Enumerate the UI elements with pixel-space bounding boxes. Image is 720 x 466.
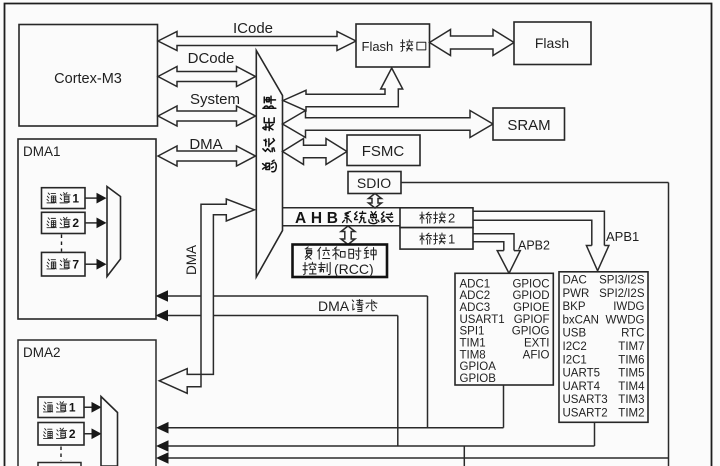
APB1 hollow down arrowhead <box>586 246 609 271</box>
svg-text:USART3: USART3 <box>563 394 608 406</box>
wire <box>427 296 429 428</box>
svg-text:GPIOE: GPIOE <box>513 302 550 314</box>
svg-text:WWDG: WWDG <box>606 314 645 326</box>
svg-text:1: 1 <box>69 401 76 415</box>
arrow channel 2 to arbiter <box>85 222 99 224</box>
arrow channel 7 to arbiter <box>85 263 99 265</box>
svg-text:I2C1: I2C1 <box>563 354 587 366</box>
svg-text:IWDG: IWDG <box>613 301 644 313</box>
DMA request wire APB2 to DMA1 <box>165 295 428 297</box>
DMA1 channel 7 box 通道7 <box>42 252 86 276</box>
svg-text:DMA1: DMA1 <box>23 144 61 159</box>
svg-text:SPI3/I2S: SPI3/I2S <box>599 275 645 287</box>
wire <box>397 316 399 447</box>
arrow Flash interface to Flash <box>430 30 515 56</box>
svg-text:UART4: UART4 <box>563 381 601 393</box>
svg-text:USB: USB <box>563 328 587 340</box>
svg-text:TIM7: TIM7 <box>618 341 644 353</box>
wire APB1 box bottom <box>594 422 596 446</box>
svg-text:ICode: ICode <box>233 20 273 37</box>
arrow channel 1 to arbiter <box>85 197 99 199</box>
svg-text:TIM6: TIM6 <box>618 354 644 366</box>
DMA1 controller box <box>18 139 156 319</box>
bent arrow bus matrix to Flash interface <box>283 68 403 111</box>
svg-text:GPIOC: GPIOC <box>512 278 549 290</box>
svg-text:PWR: PWR <box>563 288 590 300</box>
wire SDIO to right vertical <box>401 182 669 184</box>
DMA1 channel 1 box 通道1 <box>42 188 86 209</box>
svg-text:DMA: DMA <box>318 298 350 314</box>
SDIO box <box>348 172 401 194</box>
bridge 2 box 桥接2 <box>400 208 473 228</box>
svg-text:1: 1 <box>72 191 79 205</box>
dashed ellipsis DMA2 channels <box>60 447 62 462</box>
svg-text:ADC1: ADC1 <box>460 278 491 290</box>
wire stub down <box>463 446 465 466</box>
SRAM box <box>493 108 565 140</box>
DMA2 arbiter <box>101 397 118 466</box>
DMA2 controller box <box>18 340 156 466</box>
DMA request wire APB2 to DMA2 <box>165 427 504 429</box>
FSMC box <box>347 135 420 166</box>
svg-text:2: 2 <box>72 216 79 230</box>
arrow SDIO to AHB bus <box>369 194 382 209</box>
svg-text:2: 2 <box>69 427 76 441</box>
bridge 1 box 桥接1 <box>400 228 473 250</box>
svg-text:DMA: DMA <box>189 136 222 153</box>
svg-text:GPIOB: GPIOB <box>460 373 497 385</box>
svg-text:AFIO: AFIO <box>523 349 550 361</box>
svg-text:UART5: UART5 <box>563 368 601 380</box>
svg-text:7: 7 <box>72 258 79 272</box>
DMA bus arrow DMA1 to bus matrix <box>158 146 256 166</box>
arrow channel 2 to arbiter <box>84 433 94 435</box>
APB2 peripherals box <box>455 273 553 385</box>
svg-text:1: 1 <box>448 232 455 247</box>
APB1 peripherals box <box>559 272 648 423</box>
APB2 hollow down arrowhead <box>497 251 520 274</box>
svg-text:RTC: RTC <box>621 328 644 340</box>
AHB system bus <box>283 207 401 209</box>
svg-text:2: 2 <box>448 211 455 226</box>
svg-text:SPI2/I2S: SPI2/I2S <box>599 288 645 300</box>
bus matrix 总线矩阵 <box>256 51 282 278</box>
dashed ellipsis DMA1 channels <box>61 235 63 252</box>
svg-text:DMA2: DMA2 <box>23 345 61 360</box>
svg-text:USART1: USART1 <box>460 314 505 326</box>
arrow bus matrix to FSMC <box>283 139 348 165</box>
DMA request wire APB1 to DMA1 <box>165 315 398 317</box>
svg-text:TIM2: TIM2 <box>618 408 644 420</box>
Cortex-M3 CPU box <box>19 25 158 127</box>
svg-text:SDIO: SDIO <box>357 175 391 191</box>
svg-text:(RCC): (RCC) <box>334 261 374 277</box>
ICode bus arrow Cortex-M3 to Flash interface <box>158 32 356 51</box>
System bus arrow Cortex-M3 to bus matrix <box>158 106 256 126</box>
svg-text:SPI1: SPI1 <box>460 326 485 338</box>
Flash memory box <box>514 22 591 65</box>
svg-text:ADC3: ADC3 <box>460 302 491 314</box>
DMA2 partial channel box <box>38 463 81 466</box>
svg-text:APB2: APB2 <box>518 239 550 253</box>
svg-text:Flash: Flash <box>362 39 394 54</box>
svg-text:DCode: DCode <box>188 50 235 67</box>
wire right vertical down to DMA2 request <box>668 183 670 466</box>
DMA request wire SDIO to DMA2 <box>165 457 669 459</box>
svg-text:APB1: APB1 <box>606 229 639 244</box>
Flash interface box <box>356 24 430 67</box>
APB1 bus wire bridge2 to APB1 peripherals <box>473 211 604 245</box>
DMA2 channel 2 box 通道2 <box>38 423 84 446</box>
svg-text:AHB: AHB <box>295 210 338 227</box>
APB2 bus wire bridge1 to APB2 peripherals <box>473 234 514 251</box>
arrow channel 1 to arbiter <box>84 406 94 408</box>
svg-text:TIM4: TIM4 <box>618 381 645 393</box>
svg-text:Flash: Flash <box>535 35 569 51</box>
svg-text:System: System <box>190 91 240 108</box>
svg-text:TIM1: TIM1 <box>460 338 486 350</box>
svg-text:TIM8: TIM8 <box>460 349 486 361</box>
svg-text:EXTI: EXTI <box>524 338 550 350</box>
svg-text:GPIOF: GPIOF <box>514 314 550 326</box>
svg-text:bxCAN: bxCAN <box>563 314 599 326</box>
svg-text:ADC2: ADC2 <box>460 290 491 302</box>
svg-text:DAC: DAC <box>563 275 587 287</box>
DMA request wire APB1 to DMA2 <box>165 445 595 447</box>
DMA2 channel 1 box 通道1 <box>38 397 84 418</box>
arrow bus matrix to SRAM <box>283 111 494 138</box>
svg-text:BKP: BKP <box>563 301 586 313</box>
svg-text:USART2: USART2 <box>563 408 608 420</box>
arrow AHB to RCC <box>341 226 355 245</box>
svg-text:FSMC: FSMC <box>362 143 405 160</box>
DCode bus arrow Cortex-M3 to bus matrix <box>158 67 256 87</box>
wire APB2 box bottom <box>503 385 505 428</box>
svg-text:TIM5: TIM5 <box>618 368 644 380</box>
svg-text:SRAM: SRAM <box>507 117 550 134</box>
DMA1 channel 2 box 通道2 <box>42 212 86 233</box>
svg-text:Cortex-M3: Cortex-M3 <box>54 71 122 87</box>
svg-text:GPIOG: GPIOG <box>512 326 550 338</box>
svg-text:GPIOD: GPIOD <box>512 290 549 302</box>
RCC box 复位和时钟控制 <box>293 245 388 278</box>
svg-text:TIM3: TIM3 <box>618 394 644 406</box>
svg-text:GPIOA: GPIOA <box>460 361 497 373</box>
svg-text:I2C2: I2C2 <box>563 341 587 353</box>
DMA1 arbiter <box>107 187 121 277</box>
bent DMA arrow DMA2 to bus matrix <box>159 199 254 393</box>
svg-text:DMA: DMA <box>184 245 199 275</box>
